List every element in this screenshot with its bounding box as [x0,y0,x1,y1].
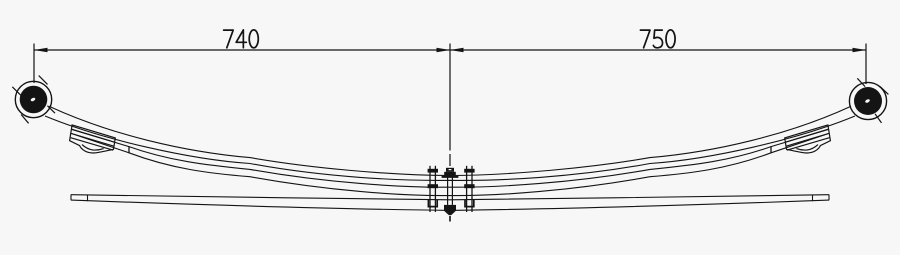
eye left tick NW [12,87,21,96]
center bolt shaft right [451,177,453,205]
clip bolt right shank 1 [466,166,468,212]
dimension line 740 [34,49,450,51]
spring eye left bushing [20,86,48,114]
extension line left [33,44,35,84]
clamp left inner line 3 [71,138,114,151]
center bolt shaft left [447,177,449,205]
leaf 1 bottom edge [45,116,855,180]
eye right tick NE [880,87,888,95]
clamp left outline [70,125,116,153]
clamp left inner line 2 [71,133,114,146]
center bolt nut [444,172,456,176]
clip bolt left shank 2 [434,166,436,212]
center bolt washer [442,176,459,178]
label 740 [224,30,259,48]
clip bolt right bottom loop [465,200,474,207]
clamp left bottom bulge inner line [82,145,104,150]
label 750 [640,30,675,48]
clip bolt right shank 2 [471,166,473,212]
clip bolt left top cap [428,169,438,173]
clamp right inner line 1 [785,129,828,142]
helper leaf end face left [70,195,72,201]
center bolt stub notch [449,169,452,170]
eye right tick NW [857,78,865,86]
leaf 2 end face right [770,146,772,153]
spring eye right bushing [854,87,882,115]
spring eye right ring [849,82,886,119]
helper leaf tick right [812,195,814,201]
eye right tick SE [875,114,882,123]
clip bolt left mid cap [428,184,438,188]
center bolt tail line [449,216,451,222]
leaf 2 top edge [71,129,829,187]
clamp right inner line 3 [787,138,830,151]
dimension line 750 [450,49,866,51]
arrowhead left inner [437,48,451,53]
clip bolt right mid cap [464,184,474,188]
spring eye left ring [15,81,51,117]
clip bolt right top cap [464,169,474,173]
helper leaf tick left [87,195,89,201]
arrowhead left outer [34,48,48,53]
extension line right [865,44,867,85]
center bolt head [444,205,456,211]
leaf 1 top edge [49,106,851,175]
centerline dash above bolt [449,154,451,166]
leaf 2 end face left [128,146,130,153]
clamp left inner line 1 [72,129,115,142]
clamp right bottom bulge inner line [796,145,818,150]
spring eye right center mark [865,99,871,104]
arrowhead right outer [853,48,867,53]
eye left tick SW [21,115,29,124]
clamp right outline [785,125,831,153]
clamp right inner line 2 [786,133,829,146]
helper leaf bottom edge [71,200,829,210]
spring eye left center mark [30,97,36,102]
extension line center [449,44,451,151]
leaf 2 bottom edge [71,133,829,195]
helper leaf top edge [71,195,829,200]
eye left tick NE [39,76,48,85]
clip bolt left shank 1 [429,166,431,212]
center bolt head dome [444,211,456,215]
arrowhead right inner [450,48,464,53]
eye left tick SE [47,106,55,114]
clip bolt left bottom loop [428,200,437,207]
helper leaf end face right [828,195,830,201]
center bolt stub [446,168,454,172]
